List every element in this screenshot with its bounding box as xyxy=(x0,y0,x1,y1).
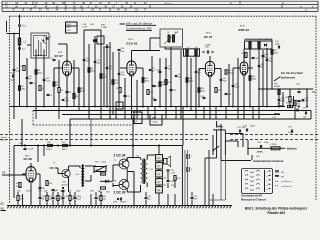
svg-text:C5: C5 xyxy=(43,36,45,38)
wire xyxy=(136,107,138,120)
bus +B xyxy=(33,110,303,112)
svg-text:1kΩ: 1kΩ xyxy=(60,191,64,193)
svg-text:30kΩ: 30kΩ xyxy=(38,73,43,75)
junction xyxy=(66,106,68,108)
wire xyxy=(94,36,96,107)
inductor L1 xyxy=(18,38,20,45)
svg-text:Batterie: Batterie xyxy=(287,147,297,151)
svg-text:Für Uk-Anschluß: Für Uk-Anschluß xyxy=(281,71,303,75)
wire xyxy=(215,68,221,70)
wire xyxy=(195,107,197,120)
junction xyxy=(118,106,120,108)
wire xyxy=(69,119,71,146)
svg-text:5µF: 5µF xyxy=(42,198,45,200)
wire xyxy=(90,119,92,146)
svg-text:L33: L33 xyxy=(150,169,153,171)
capacitor C23 xyxy=(154,98,157,100)
wire xyxy=(136,80,138,111)
junction xyxy=(243,106,245,108)
wire xyxy=(36,173,40,175)
svg-text:2 OC 30: 2 OC 30 xyxy=(114,153,126,157)
svg-text:L41: L41 xyxy=(273,117,276,119)
component location table xyxy=(2,0,318,2)
inductor L38 xyxy=(257,151,259,154)
junction xyxy=(232,106,234,108)
wire xyxy=(106,44,108,107)
wire xyxy=(289,102,291,107)
svg-text:500kΩ: 500kΩ xyxy=(274,86,280,88)
resistor R41 xyxy=(63,144,68,146)
svg-text:EF 97: EF 97 xyxy=(204,35,213,39)
wire xyxy=(88,44,90,115)
wire xyxy=(30,163,32,167)
capacitor C87 xyxy=(167,169,170,171)
tube U4 EBF83 xyxy=(240,62,248,74)
speaker LS xyxy=(164,159,168,165)
svg-text:880Ω: 880Ω xyxy=(62,149,67,151)
wire gap fills xyxy=(58,60,60,87)
wire xyxy=(54,67,63,69)
connector block xyxy=(242,169,273,194)
capacitor C82 xyxy=(52,188,55,190)
svg-text:L34: L34 xyxy=(157,174,160,176)
wire xyxy=(266,48,268,107)
auto antenna arrow xyxy=(228,160,250,162)
svg-text:4,7kΩ: 4,7kΩ xyxy=(101,162,107,164)
svg-text:100µF: 100µF xyxy=(288,132,294,134)
junction xyxy=(131,106,133,108)
svg-text:100pF: 100pF xyxy=(205,44,211,46)
wire xyxy=(66,44,68,61)
wire xyxy=(245,38,273,40)
wire xyxy=(131,75,133,119)
junction xyxy=(26,106,28,108)
wire xyxy=(19,45,21,60)
wire xyxy=(146,155,148,158)
resistor R52 xyxy=(101,187,106,189)
wire battery xyxy=(248,147,271,149)
tube U2 ECH83 xyxy=(127,61,136,75)
capacitor C62 xyxy=(262,54,265,56)
component filler upper xyxy=(13,68,16,70)
output transformer T2 windings xyxy=(141,160,143,165)
resistor R14 xyxy=(165,80,167,85)
svg-text:C86: C86 xyxy=(157,190,160,192)
capacitor C40 xyxy=(11,75,13,78)
chassis dashed border right xyxy=(315,16,317,200)
svg-text:d: d xyxy=(267,185,268,187)
wire xyxy=(154,107,156,120)
svg-text:EF 98: EF 98 xyxy=(24,157,33,161)
chassis dashed border top xyxy=(10,15,317,17)
inductor L41 xyxy=(274,113,276,116)
transformer T1 windings xyxy=(81,166,82,169)
wire xyxy=(37,146,39,163)
wire xyxy=(120,67,127,69)
capacitor C30 xyxy=(206,51,208,54)
wire xyxy=(58,173,62,175)
transistor Q2 OC30 xyxy=(119,159,129,169)
battery arrow xyxy=(285,148,286,149)
svg-text:L36: L36 xyxy=(163,178,166,180)
wire xyxy=(289,89,291,97)
wire xyxy=(184,150,186,206)
svg-text:C71: C71 xyxy=(303,108,306,110)
svg-text:C85: C85 xyxy=(171,181,174,183)
svg-text:50µF: 50µF xyxy=(250,126,256,128)
junction xyxy=(289,106,291,108)
svg-text:Dr: Dr xyxy=(117,106,119,108)
wire xyxy=(132,119,134,146)
diode D50 xyxy=(105,180,108,183)
svg-text:0,5µF: 0,5µF xyxy=(77,198,81,200)
wire xyxy=(88,107,90,120)
svg-text:1MΩ: 1MΩ xyxy=(21,89,25,91)
junction xyxy=(142,106,144,108)
wire xyxy=(303,110,311,112)
junction xyxy=(298,106,300,108)
chassis dashed divider upper xyxy=(0,134,208,136)
wire xyxy=(113,164,119,166)
svg-text:470kΩ: 470kΩ xyxy=(46,149,52,151)
capacitor Cstat xyxy=(18,24,21,26)
svg-text:R42: R42 xyxy=(16,183,19,185)
wire xyxy=(164,47,166,49)
wire xyxy=(147,107,149,120)
svg-text:L36: L36 xyxy=(157,182,160,184)
resistor box R33 xyxy=(134,112,142,124)
svg-text:1µF: 1µF xyxy=(148,198,151,200)
chassis dashed divider lower xyxy=(0,139,208,141)
wire xyxy=(58,107,60,120)
bus +D xyxy=(70,118,311,120)
wire xyxy=(66,75,68,107)
svg-text:an Chassis: an Chassis xyxy=(281,186,293,188)
wire xyxy=(181,146,183,206)
capacitor C22 xyxy=(170,88,173,90)
wire xyxy=(35,50,37,111)
svg-text:NF: NF xyxy=(312,91,316,94)
antenna xyxy=(6,21,8,32)
wire xyxy=(158,146,160,155)
resistor R12 xyxy=(147,90,149,95)
wire xyxy=(43,50,45,107)
svg-text:47kΩ: 47kΩ xyxy=(26,191,31,193)
capacitor C80 xyxy=(24,144,26,146)
wire xyxy=(165,107,167,120)
wire xyxy=(209,56,211,61)
junction xyxy=(106,106,108,108)
svg-text:220Ω: 220Ω xyxy=(81,91,86,93)
svg-text:1000µF: 1000µF xyxy=(120,201,127,203)
tube U5 EF98 xyxy=(26,167,36,182)
wire elbow2 xyxy=(225,140,238,142)
resistor R56 xyxy=(174,176,176,181)
resistor box R34 xyxy=(150,115,162,126)
wire xyxy=(22,173,26,175)
wire xyxy=(109,107,111,120)
svg-text:1,2kΩ: 1,2kΩ xyxy=(152,122,158,124)
svg-text:4,7nF: 4,7nF xyxy=(82,27,88,29)
bus +C xyxy=(62,114,280,116)
svg-text:50pF: 50pF xyxy=(275,43,280,45)
svg-text:C82: C82 xyxy=(68,191,71,193)
junction xyxy=(306,106,308,108)
capacitor C9 xyxy=(106,45,109,47)
wire xyxy=(170,47,172,58)
junction xyxy=(170,106,172,108)
svg-text:R38: R38 xyxy=(286,103,289,105)
svg-text:an Chassis: an Chassis xyxy=(281,181,293,183)
bus box Dr xyxy=(116,102,123,109)
junction xyxy=(249,106,251,108)
wire xyxy=(113,185,119,187)
filter network column xyxy=(156,155,163,162)
resistor R11 xyxy=(119,88,121,93)
wire xyxy=(233,67,240,69)
shield dashed box xyxy=(32,111,34,126)
wire xyxy=(248,67,253,69)
svg-text:100Ω: 100Ω xyxy=(274,53,279,55)
wire xyxy=(258,48,260,111)
svg-text:C86: C86 xyxy=(171,185,174,187)
wire xyxy=(126,168,128,171)
choke Dr2 xyxy=(278,105,280,108)
wire xyxy=(19,60,21,107)
capacitor C64 xyxy=(298,99,301,101)
small box xyxy=(97,36,104,44)
wire xyxy=(21,119,23,146)
svg-text:45 u. 4: 45 u. 4 xyxy=(165,3,172,5)
wire xyxy=(186,56,188,107)
plug symbol a xyxy=(186,154,188,159)
capacitor C6 xyxy=(47,93,50,95)
capacitor C5 xyxy=(46,37,49,39)
resistor R38 160 xyxy=(288,105,293,107)
wire xyxy=(79,166,81,168)
svg-text:330Ω: 330Ω xyxy=(252,79,257,81)
svg-text:OC 30: OC 30 xyxy=(50,166,59,170)
wire xyxy=(221,160,228,162)
tube U1 EF97 xyxy=(63,61,72,75)
wire xyxy=(132,50,161,52)
wire xyxy=(100,107,102,120)
wire xyxy=(220,124,222,161)
ground bus xyxy=(7,205,232,207)
tube U3 EF97 xyxy=(205,61,214,75)
capacitor C17 xyxy=(153,84,156,86)
svg-text:C70: C70 xyxy=(295,106,298,108)
wire xyxy=(202,51,205,53)
wire xyxy=(258,107,260,120)
svg-text:R57: R57 xyxy=(163,185,166,187)
junction xyxy=(43,106,45,108)
wire xyxy=(159,58,161,107)
junction xyxy=(266,106,268,108)
capacitor C2 xyxy=(18,47,21,49)
wire xyxy=(124,78,126,115)
junction xyxy=(186,106,188,108)
svg-text:auftrennen: auftrennen xyxy=(281,76,295,80)
svg-text:10µF: 10µF xyxy=(10,80,16,82)
wire xyxy=(203,107,205,120)
potentiometer P50 xyxy=(94,167,106,172)
svg-text:20kΩ: 20kΩ xyxy=(201,91,206,93)
wire xyxy=(247,140,249,155)
wire AF rail xyxy=(14,145,182,147)
capacitor C7 xyxy=(53,58,56,60)
svg-text:47kΩ: 47kΩ xyxy=(162,85,167,87)
junction xyxy=(198,106,200,108)
svg-text:7: 7 xyxy=(191,156,192,158)
svg-text:C84: C84 xyxy=(38,191,41,193)
svg-text:47kΩ: 47kΩ xyxy=(16,186,21,188)
wire xyxy=(68,166,70,171)
svg-text:Minuspol an Chassis: Minuspol an Chassis xyxy=(241,199,266,202)
svg-text:160Ω: 160Ω xyxy=(291,103,296,105)
wire xyxy=(136,67,143,69)
wire xyxy=(209,76,211,119)
switch S1 xyxy=(212,135,214,155)
wire xyxy=(126,189,128,192)
svg-text:3,3kΩ: 3,3kΩ xyxy=(115,83,120,85)
wire xyxy=(115,107,117,120)
wire NF out xyxy=(258,88,313,90)
svg-text:L30: L30 xyxy=(157,158,160,160)
wire xyxy=(132,146,134,158)
wire xyxy=(205,157,217,159)
capacitor C34 xyxy=(203,96,206,98)
wire xyxy=(195,56,197,111)
capacitor C84b xyxy=(167,179,170,181)
svg-text:R51: R51 xyxy=(99,171,102,173)
wire xyxy=(27,44,31,46)
plug symbol b xyxy=(186,167,188,172)
wire xyxy=(224,130,226,155)
wire xyxy=(243,74,245,119)
svg-text:12kΩ: 12kΩ xyxy=(145,81,150,83)
wire xyxy=(175,107,177,120)
svg-text:8: 8 xyxy=(191,169,192,171)
svg-text:470Ω: 470Ω xyxy=(103,77,108,79)
resistor R43 xyxy=(46,181,48,186)
wire xyxy=(19,27,21,38)
voltage table box xyxy=(66,22,78,33)
wire xyxy=(12,174,26,176)
wire xyxy=(182,107,184,146)
fuse F1 xyxy=(271,147,280,150)
wire xyxy=(30,181,32,203)
wire xyxy=(13,34,15,120)
junction xyxy=(209,106,211,108)
wire xyxy=(83,30,85,107)
wire xyxy=(165,58,167,115)
svg-text:1000µF: 1000µF xyxy=(61,185,68,187)
wire xyxy=(146,183,148,187)
capacitor C60 xyxy=(252,56,255,58)
junction xyxy=(220,106,222,108)
capacitor C4 xyxy=(30,81,33,83)
capacitor C8 xyxy=(66,90,69,92)
wire xyxy=(215,107,217,120)
wire xyxy=(100,30,102,111)
svg-text:EF 97: EF 97 xyxy=(55,54,64,58)
wire xyxy=(124,107,126,120)
wire xyxy=(126,158,128,162)
resistor R4 xyxy=(39,86,41,91)
svg-text:MW- und LW- Bereich: MW- und LW- Bereich xyxy=(126,21,153,25)
legend xyxy=(275,171,279,173)
wire xyxy=(243,49,245,62)
svg-text:R45: R45 xyxy=(17,191,20,193)
svg-text:Automatische Antenne: Automatische Antenne xyxy=(252,159,284,163)
wire xyxy=(35,107,37,120)
svg-text:NF: NF xyxy=(2,172,6,175)
capacitor C71 xyxy=(304,112,306,115)
wire antenna drop xyxy=(19,15,21,25)
wire xyxy=(84,29,101,31)
capacitor C81 xyxy=(39,186,42,188)
wire xyxy=(251,155,253,160)
svg-text:R56: R56 xyxy=(177,178,180,180)
svg-text:R53: R53 xyxy=(106,192,109,194)
wire xyxy=(13,146,15,199)
diode D1 xyxy=(93,39,96,42)
svg-text:masse: masse xyxy=(1,139,7,141)
svg-text:[M]: [M] xyxy=(1,203,5,206)
wire xyxy=(170,58,172,107)
svg-text:ECH 83: ECH 83 xyxy=(127,41,138,45)
wire xyxy=(225,107,227,120)
svg-text:R43: R43 xyxy=(49,183,52,185)
svg-text:M: M xyxy=(230,3,232,5)
svg-text:Bild 1. Schaltung des Philips-: Bild 1. Schaltung des Philips-Autosupers xyxy=(245,207,308,211)
capacitor C88 xyxy=(117,198,119,200)
resistor R6 xyxy=(73,94,75,99)
wire elbow1 xyxy=(230,133,243,135)
chassis dashed border left xyxy=(9,16,11,203)
IF transformer L9 L10 xyxy=(245,41,273,49)
svg-text:R44: R44 xyxy=(52,191,55,193)
capacitor C70 xyxy=(296,109,298,112)
wire xyxy=(252,107,254,120)
wire xyxy=(71,67,79,69)
svg-text:8,2kΩ: 8,2kΩ xyxy=(228,73,233,75)
svg-text:Geschaltet auf 6V: Geschaltet auf 6V xyxy=(241,195,262,198)
svg-text:2 OC 30: 2 OC 30 xyxy=(114,191,126,195)
junction xyxy=(94,106,96,108)
resistor R19 xyxy=(289,97,291,102)
bus +A xyxy=(10,106,285,108)
wire xyxy=(131,51,133,62)
transistor Q1 OC30 xyxy=(62,169,70,177)
bottom component row xyxy=(17,192,19,196)
svg-text:50nF: 50nF xyxy=(194,198,198,200)
wire xyxy=(118,52,120,107)
wire xyxy=(112,52,114,115)
wire xyxy=(220,161,222,201)
svg-text:250pF: 250pF xyxy=(16,71,22,73)
svg-text:Paladin 484: Paladin 484 xyxy=(267,211,285,215)
wire xyxy=(85,180,91,182)
junction xyxy=(83,106,85,108)
wire xyxy=(237,107,239,120)
svg-text:EBF 83: EBF 83 xyxy=(239,28,250,32)
capacitor C33 xyxy=(225,92,228,94)
svg-text:C83: C83 xyxy=(65,196,68,198)
resistor R42 xyxy=(19,183,21,188)
tuning coil box L2 L3 xyxy=(31,33,49,58)
